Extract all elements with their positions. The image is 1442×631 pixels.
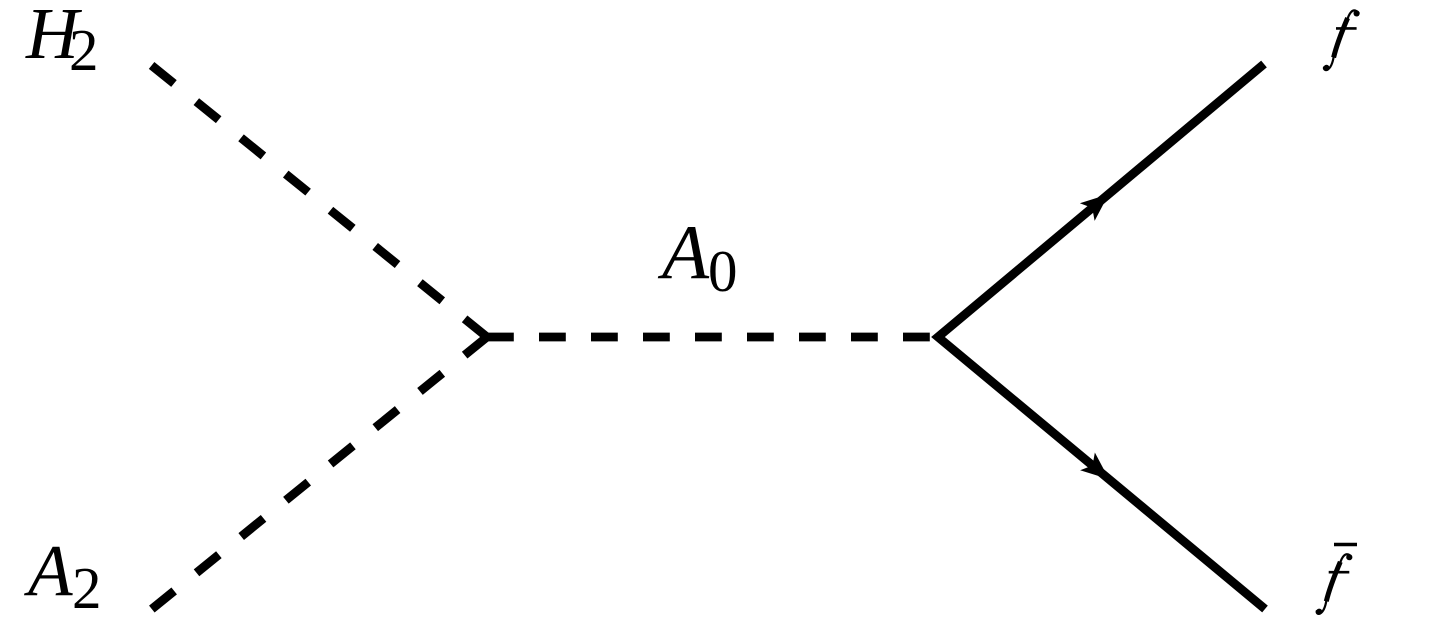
- svg-text:2: 2: [72, 555, 102, 621]
- svg-text:0: 0: [708, 238, 738, 304]
- svg-text:2: 2: [69, 17, 99, 83]
- svg-text:A: A: [24, 530, 73, 611]
- svg-text:A: A: [657, 209, 710, 295]
